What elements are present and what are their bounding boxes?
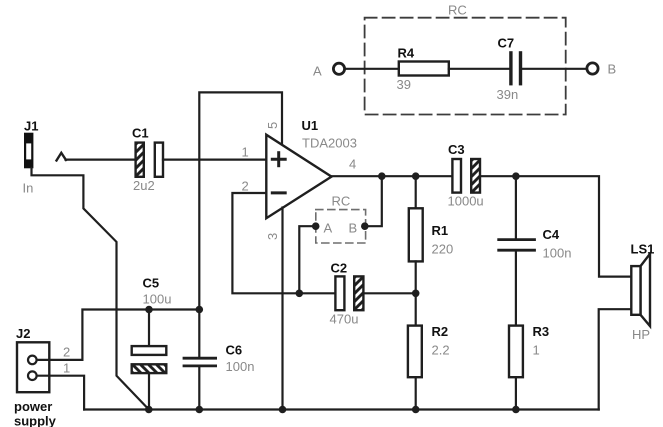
capacitor C4 [515,176,517,238]
capacitor C1 [136,143,144,177]
resistor R1 [415,176,417,208]
capacitor C5 [148,310,150,347]
wire pin 2 feedback [232,193,335,293]
node A terminal [333,63,344,74]
svg-text:2: 2 [63,345,70,360]
svg-text:100n: 100n [226,359,255,374]
junction bus-C6 [196,406,204,414]
junction rail-C4 [512,172,520,180]
resistor R3 [509,326,523,378]
svg-text:1000u: 1000u [448,194,484,209]
svg-text:100n: 100n [543,246,572,261]
capacitor C7 [509,51,512,85]
wire J1 ground run [32,168,149,410]
svg-text:220: 220 [432,242,454,257]
wire A to R4 [346,68,399,70]
svg-text:4: 4 [349,157,356,172]
junction rail-R1 [412,172,420,180]
capacitor C3 [452,159,461,193]
svg-text:RC: RC [332,194,351,209]
wire supply rail to pin 5 [199,92,282,309]
svg-text:HP: HP [632,327,650,342]
junction supply-C6 [196,306,204,314]
junction rail-B [378,172,386,180]
wire node B rise [365,176,382,226]
capacitor C2 [364,292,416,294]
svg-text:R1: R1 [432,223,449,238]
svg-text:C4: C4 [543,227,560,242]
svg-text:1: 1 [63,361,70,376]
wire ground bus [84,408,599,410]
wire R4 to C7 [449,68,509,70]
svg-text:2: 2 [242,179,249,194]
svg-text:C7: C7 [498,36,515,51]
op-amp U1 [266,135,331,219]
svg-text:C5: C5 [143,276,160,291]
svg-text:3: 3 [265,233,280,240]
svg-text:100u: 100u [143,292,172,307]
resistor R2 [415,293,417,325]
node A [312,222,320,230]
wire J2 pin1 ground [37,376,84,410]
loudspeaker LS1 [641,254,651,326]
junction bus-pin3 [279,406,287,414]
svg-text:B: B [608,62,617,77]
svg-text:1: 1 [242,145,249,160]
svg-text:2u2: 2u2 [133,178,155,193]
cable break symbol [57,153,67,161]
node B terminal [587,63,598,74]
junction pin2-A-C2 [296,290,304,298]
wire node A drop [299,226,315,293]
wire J2 pin2 supply [37,310,200,360]
RC insert dashed box [316,210,366,243]
svg-text:In: In [23,181,34,196]
RC network dashed box [365,18,566,115]
svg-text:A: A [324,221,333,236]
svg-text:R2: R2 [432,324,449,339]
junction C2-R1-R2 [412,290,420,298]
wire C7 to B [522,68,586,70]
node B [361,222,369,230]
svg-text:C3: C3 [448,142,465,157]
svg-text:R4: R4 [398,46,415,61]
wire speaker return [599,309,632,409]
wire C1 to pin 1 [163,159,266,161]
wire input to C1 [66,159,136,161]
junction bus-R2 [412,406,420,414]
svg-text:39n: 39n [497,87,519,102]
svg-text:470u: 470u [330,312,359,327]
junction supply-C5 [145,306,153,314]
junction bus-C5 [145,406,153,414]
resistor R4 [399,62,449,76]
svg-text:C6: C6 [226,343,243,358]
svg-text:R3: R3 [533,324,550,339]
svg-text:39: 39 [397,77,411,92]
svg-text:C2: C2 [331,261,348,276]
svg-text:C1: C1 [132,126,149,141]
svg-text:A: A [313,64,322,79]
junction bus-R3 [512,406,520,414]
capacitor C6 [198,310,200,357]
svg-text:RC: RC [448,3,467,18]
svg-text:5: 5 [265,122,280,129]
svg-text:supply: supply [14,414,57,427]
svg-text:J1: J1 [24,119,38,134]
svg-text:power: power [14,399,52,414]
wire pin 3 to ground [281,208,283,410]
svg-text:J2: J2 [16,326,30,341]
svg-text:TDA2003: TDA2003 [302,136,357,151]
svg-text:1: 1 [533,343,540,358]
svg-text:LS1: LS1 [631,242,655,257]
wire output pin 4 rail [332,175,453,177]
svg-text:2.2: 2.2 [432,343,450,358]
svg-text:U1: U1 [302,118,319,133]
svg-text:B: B [349,221,358,236]
